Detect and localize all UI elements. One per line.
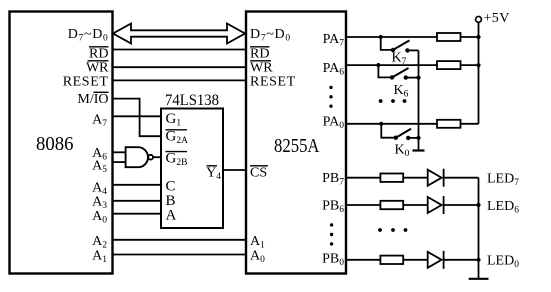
wire resistor R6 to +5V rail bbox=[461, 64, 479, 66]
wire A4 to C bbox=[113, 184, 162, 186]
junction dot rail PB0 bbox=[476, 258, 480, 262]
wire PA7 row bbox=[347, 36, 438, 38]
wire RB7 to LED7 bbox=[403, 177, 428, 179]
wire PB6 row left bbox=[347, 204, 381, 206]
LED common rail bbox=[478, 178, 480, 279]
svg-text:CS: CS bbox=[250, 166, 267, 181]
wire RB6 to LED6 bbox=[403, 204, 428, 206]
pin label CS (8255A) bbox=[250, 166, 268, 181]
relay contact K0 bbox=[381, 124, 418, 140]
resistor R7 bbox=[437, 33, 461, 41]
wire A0 to A bbox=[113, 213, 162, 215]
wire PB0 row left bbox=[347, 259, 381, 261]
ellipsis dots K column bbox=[379, 99, 407, 103]
wire LED0 to rail bbox=[444, 259, 479, 261]
resistor R6 bbox=[437, 61, 461, 69]
wire Y4 to CS bbox=[223, 169, 246, 171]
wire A2 to A1 bbox=[113, 239, 247, 241]
wire A1 to A0 bbox=[113, 254, 247, 256]
junction dot rail PA6 bbox=[476, 63, 480, 67]
junction dot PA0 bbox=[379, 122, 383, 126]
svg-text:8255A: 8255A bbox=[274, 136, 320, 157]
resistor RB7 bbox=[380, 174, 403, 182]
pin label WR (8086) bbox=[86, 61, 109, 76]
svg-text:8086: 8086 bbox=[36, 134, 74, 155]
pin label M/IO (8086) bbox=[77, 92, 108, 107]
wire RB0 to LED0 bbox=[403, 259, 428, 261]
svg-text:M/IO: M/IO bbox=[77, 92, 108, 107]
svg-text:74LS138: 74LS138 bbox=[165, 92, 219, 109]
pin G2A (74LS138) bbox=[166, 129, 189, 147]
wire RESET bbox=[113, 79, 247, 81]
junction dot rail PA7 bbox=[476, 35, 480, 39]
junction dot PA6 bbox=[376, 63, 380, 67]
resistor RB0 bbox=[380, 256, 403, 264]
CPU 8086 box bbox=[10, 12, 113, 274]
wire M/IO to G2A bbox=[113, 99, 162, 137]
svg-text:WR: WR bbox=[250, 61, 273, 76]
LED D0 bbox=[428, 251, 444, 269]
pin label WR (8255A) bbox=[250, 61, 273, 76]
svg-text:RESET: RESET bbox=[250, 75, 296, 90]
wire PB7 row left bbox=[347, 177, 381, 179]
wire RD bbox=[113, 49, 247, 51]
pin label RD (8086) bbox=[89, 47, 109, 62]
wire LED6 to rail bbox=[444, 204, 479, 206]
wire resistor R0 to +5V rail bbox=[461, 123, 479, 125]
wire A5 to NAND bbox=[113, 161, 126, 163]
+5V terminal circle bbox=[476, 17, 482, 23]
data bus double arrow D7~D0 bbox=[113, 24, 245, 44]
wire resistor R7 to +5V rail bbox=[461, 36, 479, 38]
junction dot PA7 bbox=[379, 35, 383, 39]
svg-text:A: A bbox=[166, 208, 177, 224]
LED D7 bbox=[428, 169, 444, 187]
wire NAND output to G2B bbox=[153, 156, 161, 158]
junction dot rail PB6 bbox=[476, 203, 480, 207]
relay contact K7 bbox=[381, 37, 419, 53]
wire LED7 to rail bbox=[444, 177, 479, 179]
+5V rail bbox=[478, 22, 480, 124]
relay common rail bbox=[418, 50, 420, 150]
pin Y4 (74LS138) bbox=[206, 166, 221, 183]
svg-text:D7~D0: D7~D0 bbox=[68, 27, 109, 44]
resistor RB6 bbox=[380, 201, 403, 209]
ground (relay common) bbox=[413, 149, 425, 151]
pin label RD (8255A) bbox=[250, 47, 270, 62]
junction dot K0 rail bbox=[416, 136, 420, 140]
svg-text:RD: RD bbox=[250, 47, 269, 62]
ellipsis dots PA column bbox=[329, 86, 332, 108]
wire A3 to B bbox=[113, 200, 162, 202]
wire A6 to NAND bbox=[113, 151, 126, 153]
PPI 8255A box bbox=[246, 12, 346, 274]
svg-text:D7~D0: D7~D0 bbox=[250, 27, 291, 44]
wire WR bbox=[113, 66, 247, 68]
wire PA0 row bbox=[347, 123, 438, 125]
NAND gate bbox=[126, 147, 153, 167]
decoder 74LS138 box bbox=[161, 109, 223, 229]
svg-text:WR: WR bbox=[86, 61, 109, 76]
svg-text:RESET: RESET bbox=[63, 75, 109, 90]
pin G2B (74LS138) bbox=[166, 151, 188, 169]
relay contact K6 bbox=[378, 65, 418, 80]
wire A7 to G1 bbox=[113, 115, 162, 117]
ellipsis dots PB column bbox=[330, 223, 333, 245]
resistor R0 bbox=[437, 120, 461, 128]
LED D6 bbox=[428, 196, 444, 214]
junction dot K6 rail bbox=[416, 76, 420, 80]
ellipsis dots PB resistor row bbox=[378, 228, 407, 232]
wire PA6 row bbox=[347, 64, 438, 66]
ground (LED rail) bbox=[469, 278, 489, 280]
svg-text:RD: RD bbox=[89, 47, 108, 62]
svg-text:+5V: +5V bbox=[484, 11, 510, 26]
